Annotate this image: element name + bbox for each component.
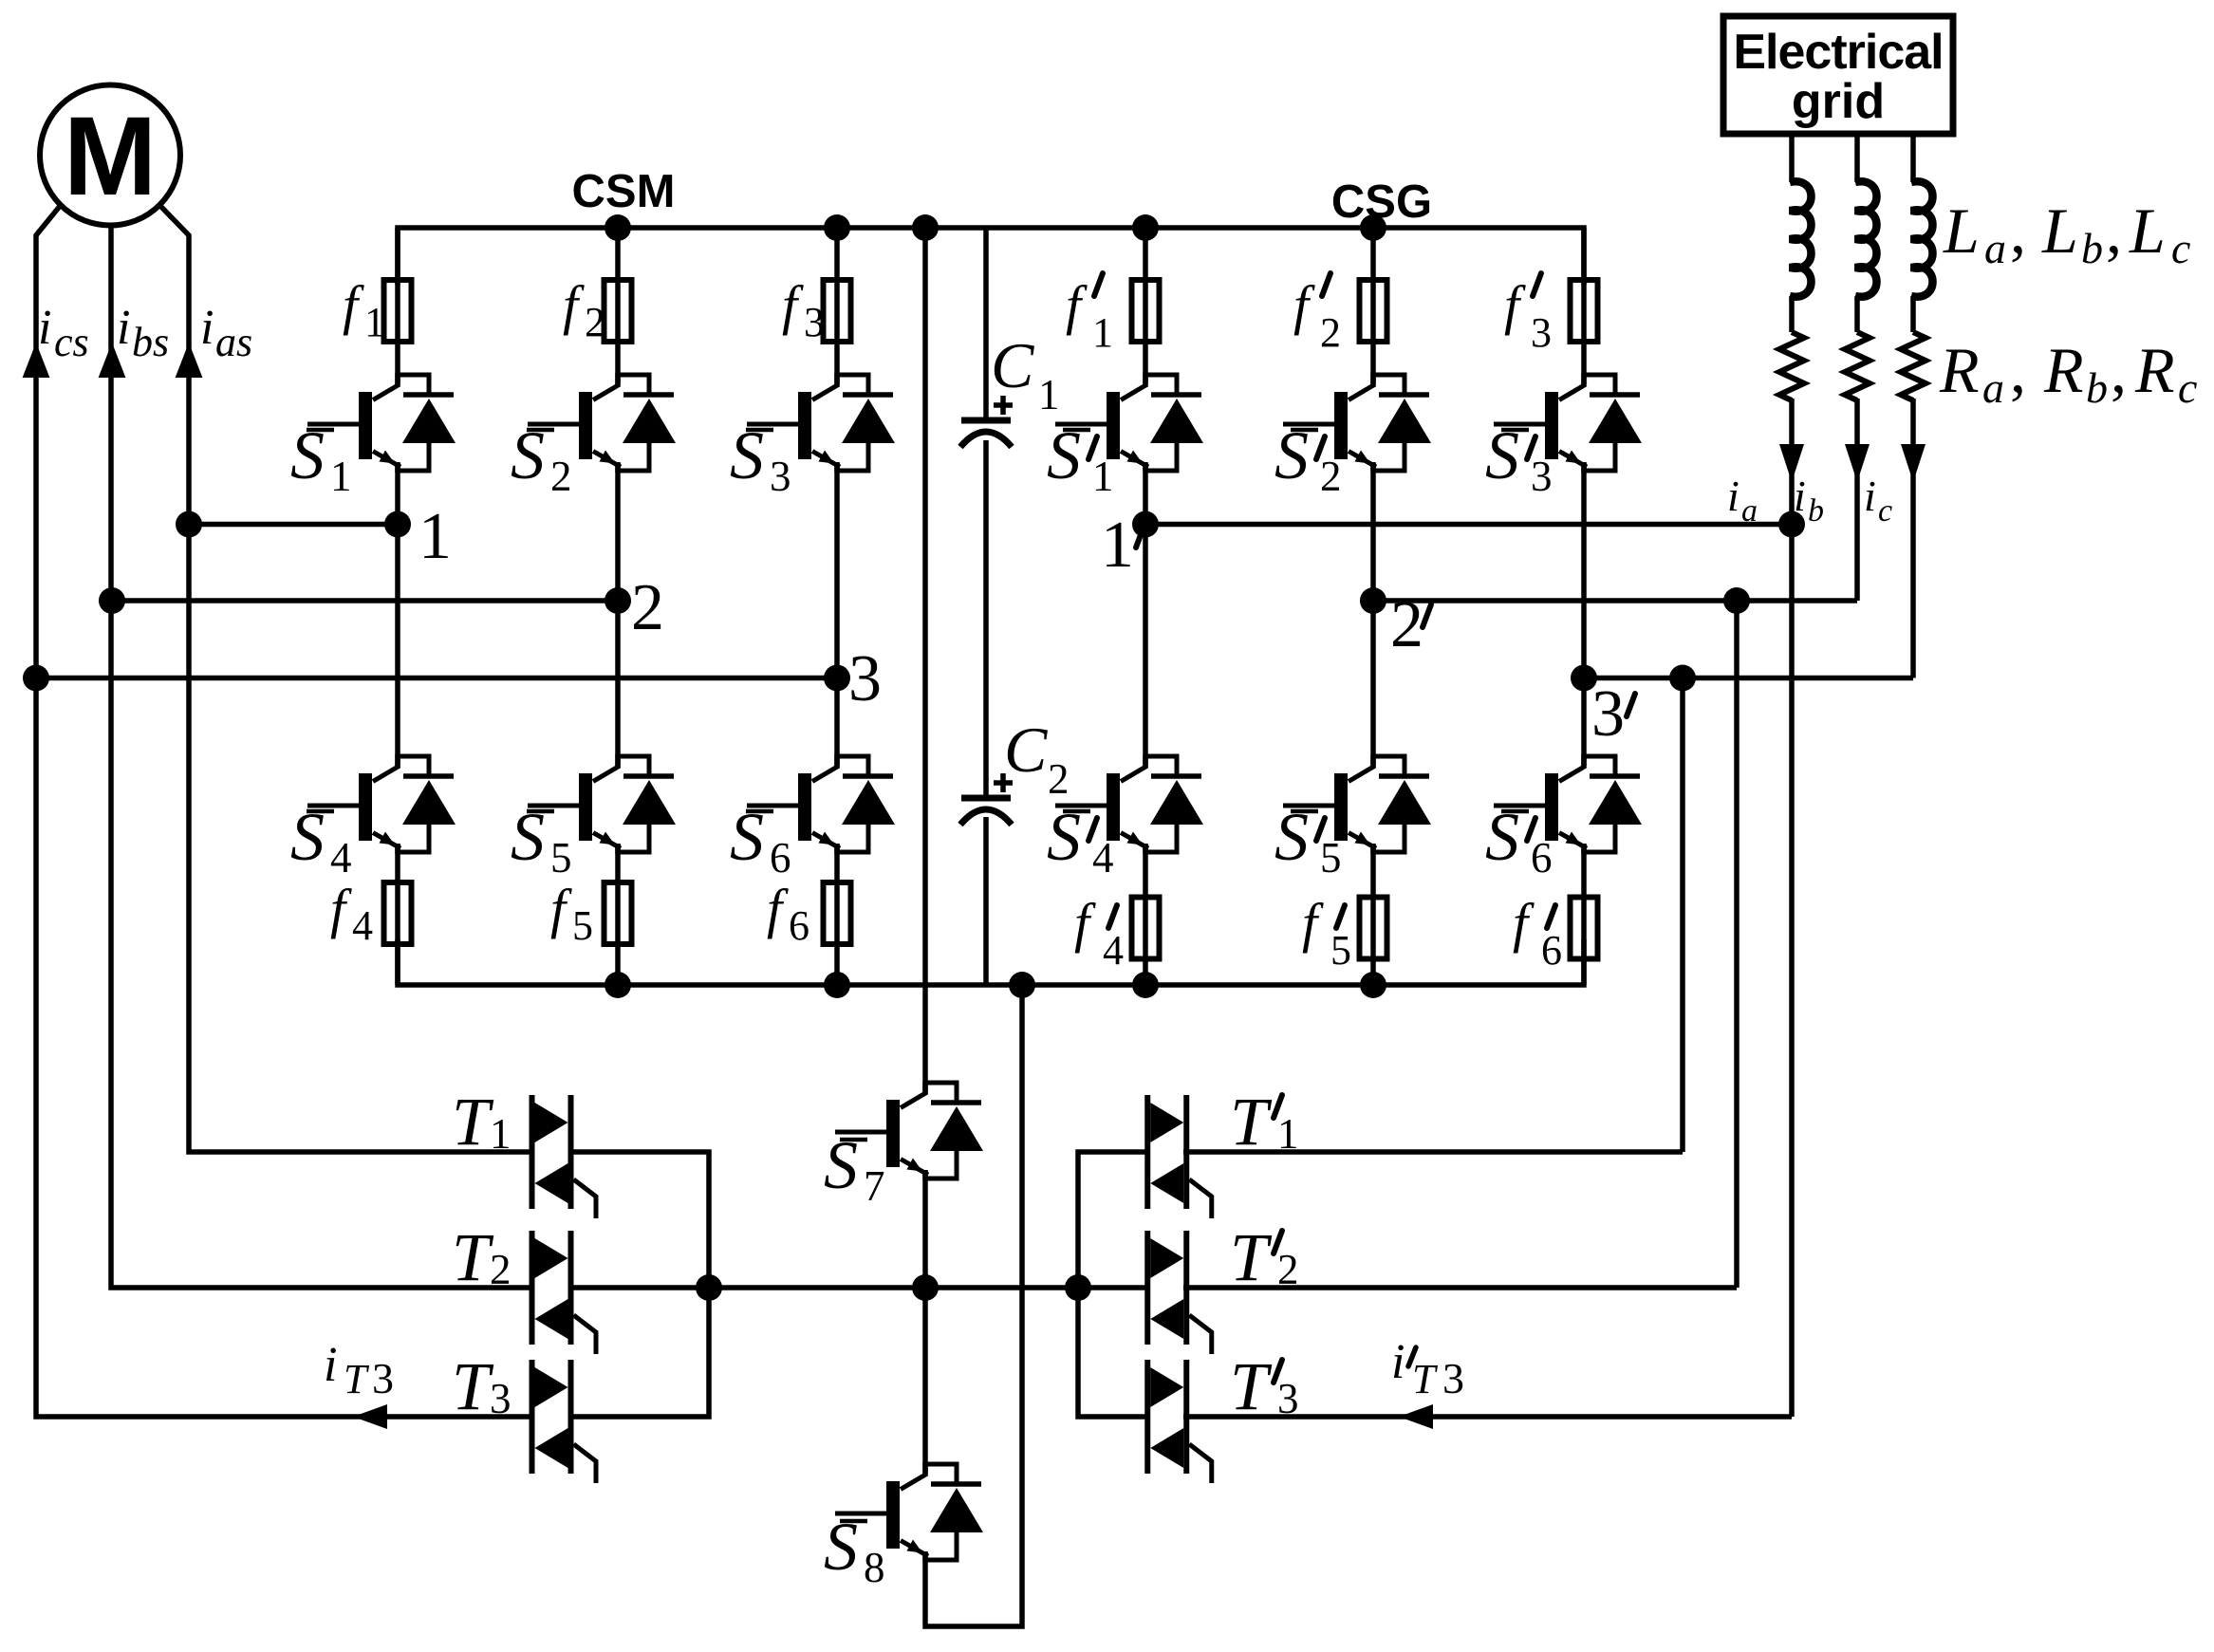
svg-text:CSG: CSG: [1331, 176, 1432, 228]
svg-text:L: L: [2041, 195, 2078, 267]
svg-text:2: 2: [1320, 309, 1341, 356]
svg-text:5: 5: [1330, 927, 1351, 974]
svg-text:1: 1: [1038, 371, 1060, 418]
svg-text:T: T: [1230, 1348, 1273, 1424]
svg-text:i: i: [117, 301, 130, 355]
svg-text:1: 1: [364, 299, 385, 345]
svg-text:1: 1: [490, 1110, 512, 1158]
svg-text:T: T: [452, 1348, 494, 1424]
svg-text:3: 3: [1531, 453, 1553, 500]
svg-text:b: b: [2081, 224, 2103, 272]
svg-text:3: 3: [804, 299, 825, 345]
svg-text:,: ,: [2111, 334, 2127, 406]
svg-text:4: 4: [352, 902, 373, 949]
svg-text:2: 2: [585, 299, 605, 345]
svg-text:2: 2: [550, 453, 572, 500]
svg-text:L: L: [2129, 195, 2166, 267]
svg-text:3: 3: [848, 642, 882, 715]
svg-text:a: a: [1982, 363, 2004, 412]
svg-text:2: 2: [490, 1246, 512, 1293]
svg-text:5: 5: [1320, 834, 1342, 882]
svg-text:i: i: [38, 301, 51, 355]
svg-text:C: C: [1004, 714, 1048, 786]
svg-text:7: 7: [864, 1162, 885, 1210]
svg-text:M: M: [64, 94, 157, 219]
svg-text:T: T: [344, 1356, 370, 1402]
svg-text:2: 2: [1320, 453, 1342, 500]
svg-text:2: 2: [1390, 588, 1423, 661]
svg-text:3: 3: [770, 453, 791, 500]
svg-text:2: 2: [1277, 1246, 1299, 1293]
svg-text:5: 5: [572, 902, 593, 949]
svg-text:5: 5: [550, 834, 572, 882]
svg-text:T: T: [1230, 1219, 1273, 1295]
svg-text:3: 3: [490, 1375, 512, 1422]
svg-text:3: 3: [1277, 1375, 1299, 1422]
svg-text:c: c: [1878, 493, 1892, 529]
svg-text:1: 1: [1277, 1110, 1299, 1158]
svg-text:3: 3: [1531, 309, 1552, 356]
svg-text:i: i: [1794, 472, 1806, 520]
svg-text:6: 6: [1541, 927, 1562, 974]
svg-text:R: R: [1939, 334, 1980, 406]
svg-text:L: L: [1943, 195, 1980, 267]
svg-text:C: C: [991, 329, 1034, 401]
svg-text:1: 1: [1101, 509, 1134, 582]
svg-text:1: 1: [330, 453, 352, 500]
svg-text:6: 6: [1531, 834, 1553, 882]
svg-text:4: 4: [1103, 927, 1124, 974]
svg-text:,: ,: [2106, 195, 2122, 267]
svg-text:i: i: [324, 1338, 337, 1392]
svg-text:1: 1: [1092, 309, 1113, 356]
svg-text:bs: bs: [132, 319, 169, 365]
svg-text:cs: cs: [54, 319, 89, 365]
svg-text:T: T: [452, 1084, 494, 1160]
svg-text:a: a: [1984, 224, 2006, 272]
svg-text:b: b: [1808, 493, 1824, 529]
svg-text:c: c: [2171, 224, 2190, 272]
svg-text:i: i: [1864, 472, 1876, 520]
svg-text:as: as: [215, 319, 252, 365]
svg-text:,: ,: [2010, 195, 2026, 267]
svg-text:i: i: [200, 301, 214, 355]
svg-text:,: ,: [2010, 334, 2026, 406]
svg-text:6: 6: [770, 834, 791, 882]
svg-text:b: b: [2086, 363, 2108, 412]
svg-text:a: a: [1741, 493, 1758, 529]
svg-text:T: T: [452, 1219, 494, 1295]
svg-text:i: i: [1727, 472, 1740, 520]
svg-text:T: T: [1412, 1356, 1439, 1402]
svg-text:grid: grid: [1792, 74, 1885, 129]
svg-text:3: 3: [1442, 1354, 1464, 1402]
svg-text:R: R: [2134, 334, 2175, 406]
svg-text:1: 1: [1092, 453, 1114, 500]
svg-text:2: 2: [1048, 755, 1070, 803]
svg-text:CSM: CSM: [572, 166, 676, 217]
svg-text:2: 2: [631, 571, 664, 644]
svg-text:Electrical: Electrical: [1733, 25, 1943, 80]
svg-text:6: 6: [789, 902, 809, 949]
svg-text:8: 8: [864, 1544, 885, 1591]
svg-text:R: R: [2043, 334, 2084, 406]
svg-text:i: i: [1391, 1335, 1405, 1389]
svg-text:3: 3: [372, 1354, 394, 1402]
svg-text:4: 4: [330, 834, 352, 882]
svg-text:T: T: [1230, 1084, 1273, 1160]
svg-text:4: 4: [1092, 834, 1114, 882]
svg-text:1: 1: [419, 500, 452, 573]
svg-text:c: c: [2178, 363, 2197, 412]
svg-text:3: 3: [1591, 678, 1625, 751]
